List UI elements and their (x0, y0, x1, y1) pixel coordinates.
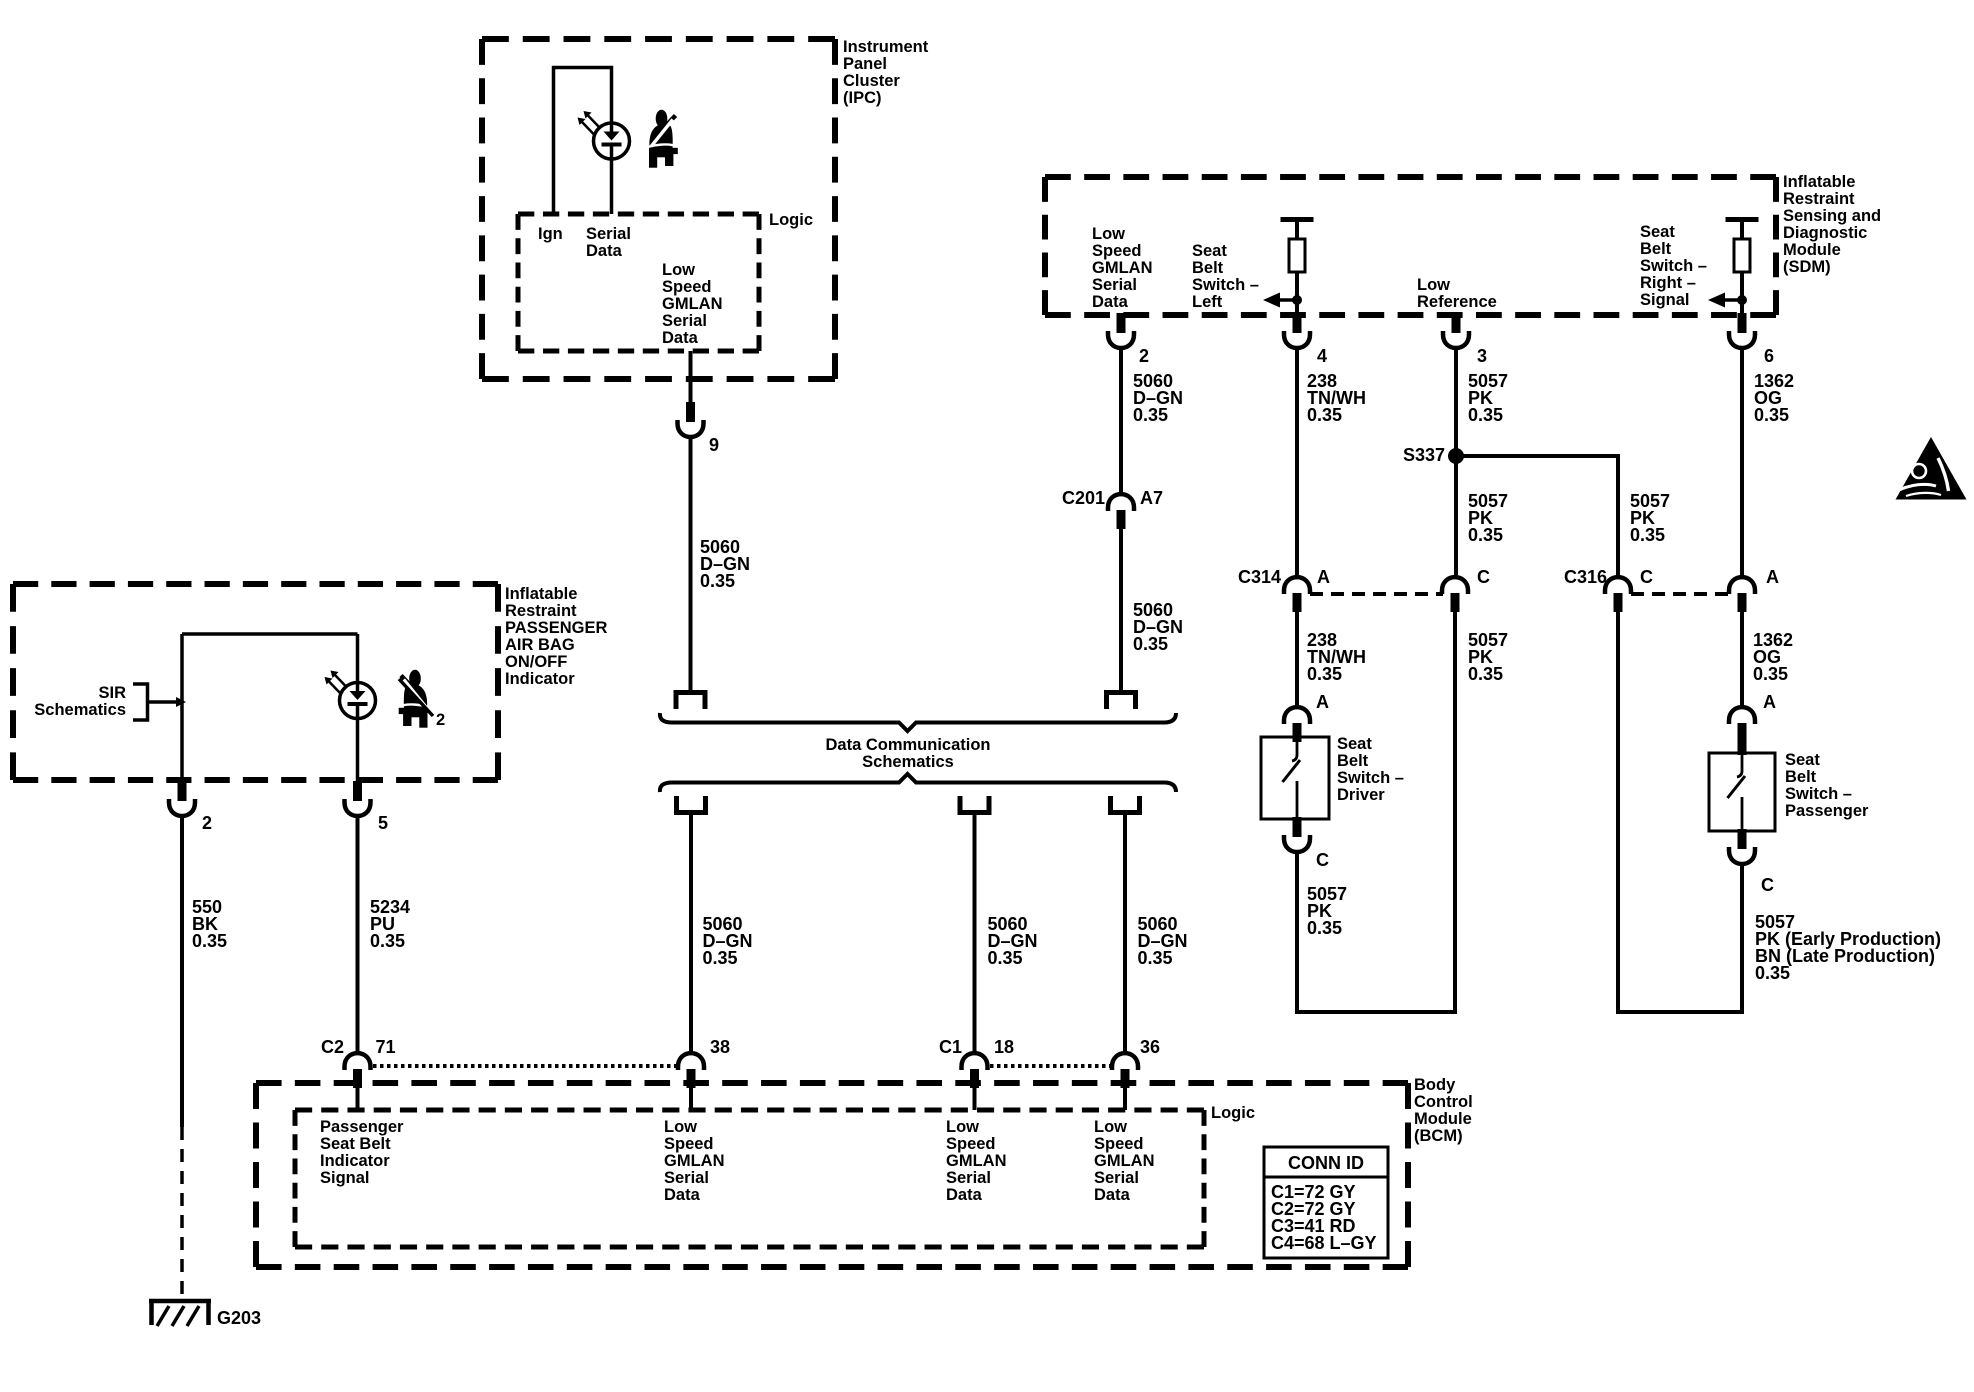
svg-text:Seat Belt: Seat Belt (320, 1135, 391, 1153)
svg-text:Schematics: Schematics (34, 701, 126, 719)
svg-text:PASSENGER: PASSENGER (505, 619, 607, 637)
svg-text:Belt: Belt (1785, 768, 1817, 786)
svg-text:Indicator: Indicator (320, 1152, 390, 1170)
svg-text:Sensing and: Sensing and (1783, 207, 1881, 225)
svg-text:A: A (1316, 692, 1329, 712)
svg-text:Body: Body (1414, 1076, 1456, 1094)
svg-text:36: 36 (1140, 1037, 1160, 1057)
svg-text:0.35: 0.35 (1468, 664, 1503, 684)
svg-text:S337: S337 (1403, 445, 1445, 465)
svg-text:Low: Low (1417, 276, 1450, 294)
svg-text:GMLAN: GMLAN (946, 1152, 1007, 1170)
svg-text:Module: Module (1783, 241, 1841, 259)
svg-text:Data: Data (1092, 293, 1129, 311)
svg-text:C314: C314 (1238, 567, 1281, 587)
svg-text:GMLAN: GMLAN (664, 1152, 725, 1170)
svg-text:Seat: Seat (1640, 223, 1675, 241)
svg-text:AIR BAG: AIR BAG (505, 636, 575, 654)
svg-text:Signal: Signal (320, 1169, 370, 1187)
svg-text:Serial: Serial (586, 225, 631, 243)
svg-text:C: C (1761, 875, 1774, 895)
svg-text:Data: Data (664, 1186, 701, 1204)
svg-text:0.35: 0.35 (1468, 525, 1503, 545)
svg-text:Belt: Belt (1192, 259, 1224, 277)
svg-text:0.35: 0.35 (1630, 525, 1665, 545)
svg-text:0.35: 0.35 (1307, 405, 1342, 425)
svg-text:Reference: Reference (1417, 293, 1497, 311)
svg-text:CONN ID: CONN ID (1288, 1153, 1364, 1173)
svg-text:C: C (1316, 850, 1329, 870)
svg-text:Low: Low (1094, 1118, 1127, 1136)
svg-text:Restraint: Restraint (505, 602, 577, 620)
svg-text:C4=68 L–GY: C4=68 L–GY (1271, 1233, 1377, 1253)
svg-text:0.35: 0.35 (192, 931, 227, 951)
svg-text:Cluster: Cluster (843, 72, 900, 90)
svg-text:3: 3 (1477, 346, 1487, 366)
svg-text:(BCM): (BCM) (1414, 1127, 1463, 1145)
svg-text:Schematics: Schematics (862, 753, 954, 771)
svg-text:9: 9 (709, 435, 719, 455)
svg-text:0.35: 0.35 (370, 931, 405, 951)
svg-text:0.35: 0.35 (1138, 948, 1173, 968)
svg-text:(IPC): (IPC) (843, 89, 882, 107)
svg-text:A7: A7 (1140, 488, 1163, 508)
svg-text:Speed: Speed (1092, 242, 1142, 260)
svg-text:A: A (1317, 567, 1330, 587)
svg-text:Switch –: Switch – (1192, 276, 1259, 294)
svg-text:Belt: Belt (1640, 240, 1672, 258)
svg-text:Speed: Speed (662, 278, 712, 296)
svg-text:Serial: Serial (1094, 1169, 1139, 1187)
svg-text:0.35: 0.35 (988, 948, 1023, 968)
svg-text:ON/OFF: ON/OFF (505, 653, 567, 671)
svg-text:G203: G203 (217, 1308, 261, 1328)
svg-text:Serial: Serial (662, 312, 707, 330)
svg-text:2: 2 (1139, 346, 1149, 366)
svg-text:5: 5 (378, 813, 388, 833)
svg-text:Signal: Signal (1640, 291, 1690, 309)
svg-text:GMLAN: GMLAN (662, 295, 723, 313)
svg-text:C201: C201 (1062, 488, 1105, 508)
svg-text:0.35: 0.35 (1307, 664, 1342, 684)
svg-text:Module: Module (1414, 1110, 1472, 1128)
svg-text:Left: Left (1192, 293, 1223, 311)
svg-text:A: A (1766, 567, 1779, 587)
svg-text:0.35: 0.35 (1133, 634, 1168, 654)
svg-text:0.35: 0.35 (703, 948, 738, 968)
svg-text:Panel: Panel (843, 55, 887, 73)
svg-text:GMLAN: GMLAN (1094, 1152, 1155, 1170)
svg-text:Serial: Serial (946, 1169, 991, 1187)
svg-text:Speed: Speed (1094, 1135, 1144, 1153)
svg-text:0.35: 0.35 (700, 571, 735, 591)
svg-text:0.35: 0.35 (1307, 918, 1342, 938)
svg-text:Switch –: Switch – (1640, 257, 1707, 275)
svg-text:C: C (1477, 567, 1490, 587)
svg-text:Restraint: Restraint (1783, 190, 1855, 208)
svg-text:Speed: Speed (664, 1135, 714, 1153)
svg-text:Right –: Right – (1640, 274, 1696, 292)
svg-text:C: C (1640, 567, 1653, 587)
svg-text:Serial: Serial (1092, 276, 1137, 294)
svg-text:C2: C2 (321, 1037, 344, 1057)
svg-text:18: 18 (994, 1037, 1014, 1057)
svg-text:Low: Low (664, 1118, 697, 1136)
svg-text:Switch –: Switch – (1785, 785, 1852, 803)
svg-text:Data: Data (586, 242, 623, 260)
svg-text:Instrument: Instrument (843, 38, 929, 56)
svg-text:2: 2 (202, 813, 212, 833)
svg-text:Switch –: Switch – (1337, 769, 1404, 787)
svg-text:Data: Data (1094, 1186, 1131, 1204)
svg-text:0.35: 0.35 (1753, 664, 1788, 684)
svg-text:4: 4 (1317, 346, 1327, 366)
svg-text:0.35: 0.35 (1755, 963, 1790, 983)
svg-text:(SDM): (SDM) (1783, 258, 1831, 276)
svg-text:C316: C316 (1564, 567, 1607, 587)
svg-text:Speed: Speed (946, 1135, 996, 1153)
svg-text:Low: Low (662, 261, 695, 279)
svg-text:Logic: Logic (769, 211, 813, 229)
svg-text:0.35: 0.35 (1133, 405, 1168, 425)
svg-text:Diagnostic: Diagnostic (1783, 224, 1867, 242)
svg-text:Logic: Logic (1211, 1104, 1255, 1122)
svg-text:Passenger: Passenger (1785, 802, 1869, 820)
svg-text:Ign: Ign (538, 225, 563, 243)
svg-text:Seat: Seat (1337, 735, 1372, 753)
svg-text:SIR: SIR (98, 684, 126, 702)
svg-text:38: 38 (710, 1037, 730, 1057)
svg-text:2: 2 (436, 711, 445, 729)
svg-text:Data: Data (662, 329, 699, 347)
svg-text:Seat: Seat (1192, 242, 1227, 260)
svg-text:Data: Data (946, 1186, 983, 1204)
svg-text:Passenger: Passenger (320, 1118, 404, 1136)
svg-text:Low: Low (946, 1118, 979, 1136)
svg-text:GMLAN: GMLAN (1092, 259, 1153, 277)
svg-text:C1: C1 (939, 1037, 962, 1057)
svg-text:Seat: Seat (1785, 751, 1820, 769)
svg-text:Belt: Belt (1337, 752, 1369, 770)
svg-text:Data Communication: Data Communication (825, 736, 990, 754)
svg-text:0.35: 0.35 (1468, 405, 1503, 425)
svg-text:6: 6 (1764, 346, 1774, 366)
svg-text:Indicator: Indicator (505, 670, 575, 688)
svg-text:Control: Control (1414, 1093, 1473, 1111)
svg-text:Driver: Driver (1337, 786, 1385, 804)
svg-text:Inflatable: Inflatable (505, 585, 577, 603)
svg-text:A: A (1763, 692, 1776, 712)
svg-text:71: 71 (376, 1037, 396, 1057)
svg-text:Inflatable: Inflatable (1783, 173, 1855, 191)
svg-text:Serial: Serial (664, 1169, 709, 1187)
svg-text:Low: Low (1092, 225, 1125, 243)
svg-text:0.35: 0.35 (1754, 405, 1789, 425)
